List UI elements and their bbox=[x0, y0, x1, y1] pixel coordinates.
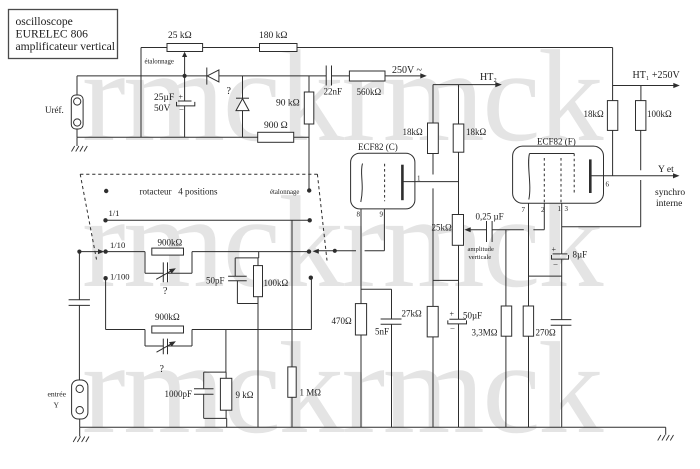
wire grid F bbox=[492, 229, 544, 231]
svg-text:+: + bbox=[179, 93, 184, 102]
wire 18k right to pot bbox=[458, 152, 460, 214]
svg-text:90 kΩ: 90 kΩ bbox=[276, 99, 300, 109]
node input wiper dot bbox=[77, 250, 81, 254]
wire 18k to plate F bbox=[612, 130, 614, 175]
svg-text:180 kΩ: 180 kΩ bbox=[259, 31, 287, 41]
svg-text:25kΩ: 25kΩ bbox=[432, 223, 453, 233]
svg-text:+: + bbox=[450, 310, 455, 319]
tube C grid dashed bbox=[384, 164, 386, 201]
capacitor 50pF bbox=[206, 252, 259, 304]
tube ECF82 C envelope bbox=[351, 142, 415, 209]
svg-text:3: 3 bbox=[565, 205, 569, 213]
resistor 560k bbox=[349, 71, 385, 97]
resistor 900k second bbox=[152, 312, 184, 333]
wire HT1 corner bbox=[612, 48, 614, 86]
capacitor 0,25uF bbox=[476, 212, 504, 243]
svg-text:18kΩ: 18kΩ bbox=[466, 127, 487, 137]
wire 1/100 drop bbox=[106, 278, 145, 329]
svg-text:7: 7 bbox=[522, 206, 526, 214]
svg-text:100kΩ: 100kΩ bbox=[647, 109, 672, 119]
tube F cathode bbox=[529, 154, 530, 200]
resistor 1M bbox=[288, 220, 321, 427]
capacitor 5nF bbox=[361, 289, 402, 427]
capacitor 22nF bbox=[324, 66, 343, 97]
tube F grid2 dashed bbox=[560, 158, 562, 203]
svg-text:8µF: 8µF bbox=[573, 250, 588, 260]
resistor 100k shunt bbox=[254, 258, 289, 427]
capacitor input series bbox=[69, 252, 90, 380]
wire node 280 connector bbox=[433, 279, 459, 281]
svg-text:9: 9 bbox=[380, 211, 384, 219]
wire ground rail bbox=[80, 426, 666, 428]
wire tap to 9k combo bbox=[225, 330, 227, 373]
trimmer capacitor second bbox=[145, 330, 192, 376]
svg-text:470Ω: 470Ω bbox=[332, 316, 353, 326]
ground right bbox=[658, 427, 674, 440]
capacitor cathode bypass bbox=[551, 320, 572, 428]
capacitor 1000pF bbox=[165, 372, 227, 418]
wire grid feed to tube C bbox=[335, 209, 385, 251]
svg-text:rotacteur 4 positions: rotacteur 4 positions bbox=[140, 187, 218, 197]
svg-text:50µF: 50µF bbox=[463, 311, 482, 321]
svg-text:Y et: Y et bbox=[658, 165, 674, 175]
svg-text:18kΩ: 18kΩ bbox=[584, 109, 605, 119]
svg-text:250V ~: 250V ~ bbox=[392, 65, 423, 76]
svg-text:?: ? bbox=[163, 286, 168, 297]
contact 1/10 right bbox=[307, 249, 311, 253]
svg-text:900 Ω: 900 Ω bbox=[264, 121, 288, 131]
svg-text:étalonnage: étalonnage bbox=[270, 189, 299, 196]
wiper left arrow bbox=[79, 249, 104, 254]
svg-text:amplitude: amplitude bbox=[468, 246, 494, 253]
ground left bbox=[72, 137, 88, 151]
resistor 25k pot body bbox=[167, 31, 203, 52]
wire 18k left down with hop bbox=[432, 154, 434, 307]
potentiometer 25k bbox=[432, 215, 494, 262]
capacitor 50uF electrolytic bbox=[448, 310, 482, 428]
wire pot bottom bbox=[458, 245, 460, 319]
WATERMARK bbox=[82, 24, 604, 461]
tube F grid1 dashed bbox=[543, 158, 545, 203]
resistor 180k bbox=[259, 31, 297, 52]
svg-text:3,3MΩ: 3,3MΩ bbox=[472, 328, 498, 338]
contact etalonnage left bbox=[104, 189, 108, 193]
label Y et bbox=[655, 165, 685, 209]
svg-text:1/100: 1/100 bbox=[110, 272, 130, 282]
wire cathode link bbox=[529, 275, 562, 277]
svg-text:1/10: 1/10 bbox=[110, 240, 125, 250]
svg-text:50pF: 50pF bbox=[206, 276, 225, 286]
svg-text:+: + bbox=[552, 245, 557, 254]
AMPF bbox=[513, 48, 686, 428]
wire top rail to pot bbox=[141, 47, 167, 49]
wire HT2 arrow bbox=[433, 72, 502, 87]
svg-text:1000pF: 1000pF bbox=[165, 389, 193, 399]
contact etalonnage right bbox=[307, 188, 311, 192]
resistor 470 bbox=[332, 304, 367, 428]
wire terminal to rail bbox=[79, 419, 81, 427]
svg-text:1/1: 1/1 bbox=[109, 208, 120, 218]
svg-text:25 kΩ: 25 kΩ bbox=[168, 31, 192, 41]
contact 1/1 right bbox=[308, 218, 312, 222]
contact 1/1 left bbox=[103, 218, 107, 222]
svg-text:900kΩ: 900kΩ bbox=[155, 312, 180, 322]
svg-text:entrée: entrée bbox=[48, 390, 67, 399]
tube F grid3 dashed bbox=[573, 154, 575, 194]
contact 1/100 right bbox=[309, 276, 313, 280]
resistor 900k first bbox=[152, 238, 184, 256]
terminal Uref bbox=[45, 95, 83, 129]
wire HT1 arrow bbox=[613, 70, 681, 88]
wire left branch down bbox=[140, 48, 142, 138]
svg-text:22nF: 22nF bbox=[324, 87, 343, 97]
svg-text:HT₂: HT₂ bbox=[480, 72, 497, 83]
capacitor 25uF electrolytic bbox=[154, 76, 195, 137]
svg-text:rmckrmck: rmckrmck bbox=[82, 316, 604, 461]
resistor 90k bbox=[276, 76, 314, 191]
svg-text:oscilloscope: oscilloscope bbox=[16, 15, 73, 28]
wire row 1/10 left bbox=[106, 251, 145, 253]
wiper right arrow bbox=[313, 249, 335, 254]
resistor 27k bbox=[402, 306, 439, 427]
wire cathode C down bbox=[360, 209, 362, 304]
svg-text:560kΩ: 560kΩ bbox=[357, 87, 382, 97]
svg-text:6: 6 bbox=[606, 181, 610, 189]
svg-text:?: ? bbox=[227, 86, 232, 97]
wire top to HT1 corner bbox=[297, 47, 613, 49]
ground entree bbox=[73, 427, 89, 442]
svg-text:18kΩ: 18kΩ bbox=[403, 127, 424, 137]
svg-text:ECF82 (C): ECF82 (C) bbox=[358, 142, 398, 152]
svg-text:50V: 50V bbox=[154, 104, 171, 114]
resistor 900 bbox=[258, 121, 294, 142]
svg-text:Uréf.: Uréf. bbox=[45, 105, 64, 115]
svg-text:1 MΩ: 1 MΩ bbox=[300, 388, 322, 398]
svg-text:9 kΩ: 9 kΩ bbox=[236, 390, 254, 400]
svg-text:EURELEC 806: EURELEC 806 bbox=[16, 28, 89, 41]
svg-text:interne: interne bbox=[656, 199, 682, 209]
wire plate F arrow Y bbox=[590, 173, 679, 188]
tube F plate bar bbox=[589, 159, 592, 193]
wire cathode F down bbox=[528, 203, 530, 306]
svg-text:1: 1 bbox=[558, 205, 562, 213]
resistor 9k bbox=[220, 372, 253, 427]
svg-text:5nF: 5nF bbox=[375, 327, 389, 337]
svg-text:étalonnage: étalonnage bbox=[145, 59, 174, 66]
node junction dot A bbox=[183, 74, 187, 78]
svg-text:?: ? bbox=[160, 364, 165, 375]
tube F cathode top link bbox=[530, 153, 575, 155]
wire grid F lead bbox=[543, 203, 545, 229]
svg-text:0,25 µF: 0,25 µF bbox=[476, 212, 504, 222]
resistor 3,3M bbox=[472, 230, 512, 428]
svg-text:27kΩ: 27kΩ bbox=[402, 309, 423, 319]
svg-text:HT₁ +250V: HT₁ +250V bbox=[633, 70, 681, 81]
wire 100k down with hop bbox=[562, 130, 641, 226]
pot 25k wiper arrow bbox=[182, 52, 187, 76]
AMPC bbox=[332, 72, 545, 427]
contact 1/10 left bbox=[103, 249, 107, 253]
TITLE BLOCK bbox=[9, 10, 118, 59]
diode D1 bbox=[207, 68, 219, 85]
wire main horizontal bbox=[77, 75, 424, 77]
svg-text:25µF: 25µF bbox=[154, 93, 174, 103]
svg-text:amplificateur vertical: amplificateur vertical bbox=[16, 40, 115, 53]
wire terminal to bottom bbox=[76, 129, 78, 137]
tube ECF82 F envelope bbox=[513, 137, 604, 204]
capacitor 8uF electrolytic bbox=[552, 245, 588, 320]
wire row 1/100 right bbox=[192, 278, 311, 330]
svg-text:900kΩ: 900kΩ bbox=[158, 238, 183, 248]
wire bottom horizontal bbox=[77, 136, 309, 138]
resistor 100k HT1 bbox=[636, 86, 673, 131]
wire Uref up bbox=[76, 76, 78, 95]
resistor 18k left bbox=[403, 85, 439, 154]
SWITCHBLOCK bbox=[48, 174, 674, 442]
wire plate C to node bbox=[402, 175, 458, 183]
wire screen lead bbox=[561, 203, 563, 254]
svg-text:ECF82 (F): ECF82 (F) bbox=[537, 137, 576, 147]
resistor 270 bbox=[523, 306, 556, 427]
node output wiper dot bbox=[333, 249, 337, 253]
TOPLEFT bbox=[45, 31, 613, 191]
tube C cathode bbox=[361, 164, 363, 203]
svg-text:270Ω: 270Ω bbox=[536, 328, 557, 338]
svg-text:8: 8 bbox=[357, 211, 361, 219]
svg-text:100kΩ: 100kΩ bbox=[264, 278, 289, 288]
resistor 18k right bbox=[453, 85, 486, 153]
diode zener ? bbox=[227, 76, 250, 137]
tube C plate bar bbox=[401, 165, 404, 201]
wire row 1/10 right bbox=[192, 251, 309, 253]
resistor 18k HT1 bbox=[584, 86, 618, 131]
svg-text:verticale: verticale bbox=[469, 254, 492, 261]
wire between 25k and 180k bbox=[203, 47, 260, 49]
arrow 250V bbox=[392, 65, 427, 79]
rotacteur dashed outline bbox=[80, 174, 327, 260]
trimmer capacitor first bbox=[145, 252, 192, 297]
svg-text:synchro: synchro bbox=[655, 188, 685, 198]
terminal entree Y bbox=[48, 380, 88, 419]
contact 1/100 left bbox=[103, 276, 107, 280]
svg-text:Y: Y bbox=[54, 401, 60, 410]
svg-text:1: 1 bbox=[417, 175, 421, 183]
wire row 1/1 bbox=[106, 219, 310, 221]
